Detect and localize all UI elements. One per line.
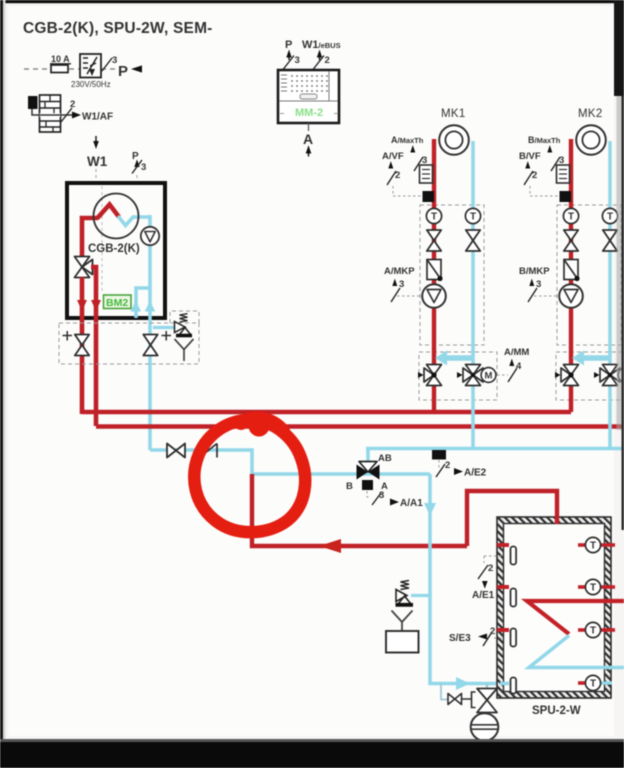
shutoff valve on blue return <box>167 444 185 458</box>
boiler return pipe (blue) through pump <box>148 215 152 318</box>
fill/drain stub <box>441 684 448 700</box>
heating circuit MK1 <box>393 125 497 448</box>
wire W1/AF <box>32 109 72 115</box>
blue return pipe below boiler <box>148 318 152 450</box>
flow arrow red right <box>91 300 101 311</box>
svg-text:CGB-2(K): CGB-2(K) <box>88 243 140 255</box>
svg-text:2: 2 <box>488 563 493 574</box>
svg-text:A/MM: A/MM <box>504 347 529 358</box>
svg-text:A/E1: A/E1 <box>472 590 495 601</box>
safety valve (storage) <box>411 594 430 597</box>
photo frame right bar <box>622 0 624 530</box>
shutoff valve red pipe <box>75 335 89 356</box>
KFE coupling bracket <box>472 692 476 708</box>
svg-text:2: 2 <box>325 55 330 66</box>
photo frame bottom bar <box>0 742 624 768</box>
svg-text:W1: W1 <box>87 154 108 169</box>
svg-text:B/VF: B/VF <box>519 151 541 162</box>
flow arrow blue left <box>131 301 142 312</box>
svg-text:2: 2 <box>70 99 75 110</box>
sensor cable A/E1 <box>484 556 503 563</box>
svg-text:3: 3 <box>422 155 427 166</box>
svg-text:230V/50Hz: 230V/50Hz <box>71 80 111 89</box>
blue return main to AB valve <box>366 447 624 451</box>
svg-text:MM-2: MM-2 <box>295 107 323 119</box>
safety valve (boiler) <box>153 326 175 329</box>
tank internal return pipe blue <box>529 636 624 668</box>
mains supply dashed wire <box>24 68 117 70</box>
svg-text:B/MKP: B/MKP <box>519 266 550 277</box>
svg-text:A/A1: A/A1 <box>400 498 423 509</box>
BM2 programming unit <box>104 295 132 309</box>
svg-text:P: P <box>285 39 292 51</box>
heat exchanger zigzag red <box>97 205 119 219</box>
thermometer tank 2 <box>578 585 586 589</box>
svg-text:4: 4 <box>516 361 522 372</box>
boiler pump <box>141 227 159 245</box>
blue pipe boiler to junction <box>150 450 252 474</box>
red pipe rising to tank <box>467 491 557 546</box>
thermometer tank 4 <box>578 681 586 685</box>
tank port stub red 1 <box>497 543 509 547</box>
tank internal flow pipe red <box>527 601 624 634</box>
shutoff valve blue pipe <box>143 335 157 356</box>
svg-text:W1/AF: W1/AF <box>82 112 113 123</box>
check valve on blue return <box>200 444 218 458</box>
photo frame top bar <box>0 0 624 3</box>
red pipe from junction down to DHW line <box>252 474 467 546</box>
storage tank SPU-2-W <box>497 517 611 698</box>
heat exchanger circle <box>94 194 139 239</box>
cable to A/A1 <box>367 491 370 497</box>
svg-text:2: 2 <box>395 170 400 181</box>
svg-text:AB: AB <box>378 453 392 464</box>
hand-drawn red circle annotation <box>194 420 305 532</box>
outdoor sensor W1/AF <box>28 95 61 132</box>
shutoff valve (fill) <box>448 694 462 705</box>
sensor square (port A) <box>362 480 373 490</box>
flow arrow red left (DHW line) <box>319 539 341 553</box>
svg-text:A/VF: A/VF <box>382 151 404 162</box>
svg-text:MK2: MK2 <box>578 108 603 120</box>
sensor pocket 3 <box>511 629 517 647</box>
blue pipe AB valve to tank <box>430 474 500 684</box>
cable count 3 mark <box>102 58 112 71</box>
tank port stub red 2 <box>497 585 509 589</box>
svg-text:3: 3 <box>559 155 564 166</box>
svg-text:A/E2: A/E2 <box>464 468 487 479</box>
flow arrow blue right <box>145 301 156 312</box>
svg-text:3: 3 <box>141 162 146 173</box>
dashed cable inside boiler <box>101 186 103 294</box>
sensor pocket 1 <box>511 547 517 565</box>
drain funnel (boiler) <box>175 339 194 361</box>
tank port stub blue bottom <box>500 682 509 686</box>
svg-text:A/MaxTh: A/MaxTh <box>391 135 424 145</box>
svg-text:2: 2 <box>490 626 495 637</box>
fuse 10A <box>50 54 71 73</box>
svg-text:10 A: 10 A <box>51 54 70 64</box>
node A (MM-2 output) <box>308 123 310 131</box>
node W1 (boiler mains) <box>93 141 99 149</box>
svg-text:CGB-2(K), SPU-2W, SEM-: CGB-2(K), SPU-2W, SEM- <box>23 20 213 37</box>
boiler supply pipe (red) <box>82 218 98 256</box>
svg-text:A: A <box>303 131 313 147</box>
boiler 3-way valve <box>75 257 93 278</box>
second red pipe from valve <box>91 267 96 426</box>
svg-text:SPU-2-W: SPU-2-W <box>532 705 581 717</box>
photo frame left bar <box>0 0 3 768</box>
svg-text:B/MaxTh: B/MaxTh <box>528 135 561 145</box>
svg-text:3: 3 <box>379 490 384 501</box>
svg-text:A/MKP: A/MKP <box>384 266 415 277</box>
svg-text:W1/eBUS: W1/eBUS <box>302 39 341 51</box>
red heating main (line B) <box>96 424 624 428</box>
tank top feed red <box>555 516 559 524</box>
red supply pipe down <box>80 277 85 414</box>
sensor A/E2 <box>432 450 446 460</box>
mixing valve AB <box>366 448 370 462</box>
blue pipe junction to AB valve <box>252 472 430 476</box>
sensor pocket 2 <box>511 589 517 607</box>
blue return stub pipes in boiler <box>136 288 150 318</box>
flow arrow red left <box>77 300 87 311</box>
drain vessel <box>386 631 419 653</box>
svg-text:P: P <box>118 63 128 80</box>
mains switch box 230V/50Hz <box>80 54 101 78</box>
sensor pocket 4 <box>511 678 517 694</box>
svg-text:2: 2 <box>445 460 450 471</box>
svg-text:MK1: MK1 <box>441 108 466 120</box>
flow arrow blue right <box>456 677 470 690</box>
KFE valve <box>486 684 488 690</box>
thermometer tank 3 <box>578 628 586 632</box>
svg-text:B: B <box>346 481 353 492</box>
water meter <box>471 713 499 741</box>
red heating supply main (line A) <box>82 410 571 414</box>
svg-text:P: P <box>132 151 139 162</box>
boiler CGB-2(K) casing <box>67 183 165 318</box>
thermometer tank 1 <box>578 543 586 547</box>
heat exchanger zigzag blue <box>118 216 151 226</box>
svg-text:3: 3 <box>112 55 117 66</box>
drain funnel (storage) <box>392 611 413 632</box>
svg-text:BM2: BM2 <box>106 297 128 309</box>
heating circuit MK2 <box>530 125 624 448</box>
flow arrow blue down <box>424 503 436 516</box>
site piping dashed box <box>59 323 199 364</box>
svg-text:2: 2 <box>532 170 537 181</box>
control module MM-2 <box>278 70 339 123</box>
svg-text:3: 3 <box>295 55 300 66</box>
svg-text:S/E3: S/E3 <box>449 633 471 644</box>
tank port stub red 3 <box>497 628 509 632</box>
